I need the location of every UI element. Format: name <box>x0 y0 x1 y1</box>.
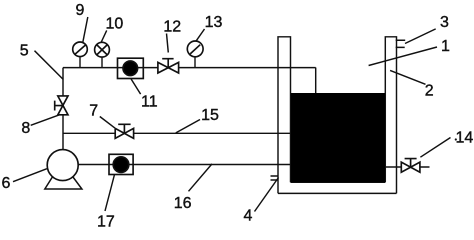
leader 7 <box>100 117 115 128</box>
leader 10 <box>101 30 106 42</box>
tank left wall <box>278 37 291 194</box>
gauge 10 <box>95 42 110 67</box>
svg-text:11: 11 <box>141 94 158 111</box>
svg-text:4: 4 <box>244 208 253 225</box>
svg-text:10: 10 <box>106 16 124 33</box>
svg-text:2: 2 <box>425 83 434 100</box>
pipe left vertical <box>62 68 64 150</box>
valve 12 <box>158 59 179 73</box>
svg-text:14: 14 <box>456 130 474 147</box>
tank outer bottom <box>278 192 397 194</box>
svg-text:16: 16 <box>174 195 192 212</box>
leader 12 <box>167 34 169 53</box>
svg-text:13: 13 <box>205 14 223 31</box>
leader 6 <box>13 169 47 182</box>
valve 7 <box>115 124 133 138</box>
liquid 1 <box>291 93 385 182</box>
tank right wall <box>385 37 396 194</box>
svg-text:3: 3 <box>440 14 449 31</box>
pipe middle horizontal <box>63 132 291 134</box>
tank inner bottom <box>291 181 386 183</box>
leader 9 <box>83 17 88 42</box>
fitting 4 ticks <box>271 176 279 180</box>
valve 8 <box>55 96 68 115</box>
gauge 13 <box>187 41 203 68</box>
fitting 3 ticks <box>396 40 406 47</box>
gauge 9 <box>73 42 88 68</box>
svg-text:5: 5 <box>20 42 29 59</box>
leader 14 <box>420 138 450 158</box>
leader 1 <box>369 47 437 66</box>
pipe tank outlet right <box>385 166 429 168</box>
leader 2 <box>390 70 425 84</box>
svg-text:6: 6 <box>2 175 11 192</box>
leader 15 <box>176 120 200 133</box>
svg-text:1: 1 <box>441 38 450 55</box>
valve 14 <box>401 159 420 173</box>
flow meter 11 <box>118 58 144 78</box>
leader 3 <box>405 29 436 44</box>
svg-text:12: 12 <box>163 18 181 35</box>
pipe top horizontal <box>63 67 316 69</box>
leader 8 <box>31 115 60 126</box>
svg-text:9: 9 <box>76 2 85 19</box>
leader 11 <box>131 79 141 94</box>
svg-text:8: 8 <box>21 120 30 137</box>
svg-text:17: 17 <box>97 214 115 230</box>
pipe bottom horizontal <box>78 164 290 166</box>
svg-text:15: 15 <box>201 107 219 124</box>
leader 5 <box>35 51 64 80</box>
leader 4 <box>255 178 279 212</box>
svg-text:7: 7 <box>89 103 98 120</box>
pump 6 <box>45 150 82 189</box>
flow meter 17 <box>109 154 133 174</box>
pipe dip tube into tank <box>315 68 317 95</box>
leader 13 <box>196 29 205 42</box>
leader 14 dot <box>455 138 457 140</box>
leader 16 <box>189 164 213 191</box>
leader 17 <box>105 175 115 212</box>
